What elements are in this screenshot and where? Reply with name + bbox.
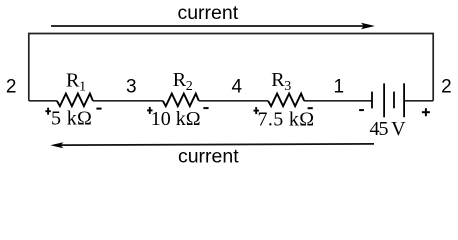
svg-text:10 kΩ: 10 kΩ — [151, 108, 201, 130]
svg-text:current: current — [177, 2, 238, 24]
svg-text:1: 1 — [334, 76, 345, 97]
svg-text:R: R — [173, 69, 187, 91]
svg-text:2: 2 — [186, 79, 193, 94]
svg-text:R: R — [66, 70, 80, 92]
svg-text:5 kΩ: 5 kΩ — [51, 107, 92, 129]
svg-text:4: 4 — [232, 76, 243, 97]
svg-text:R: R — [271, 69, 285, 91]
svg-text:3: 3 — [126, 77, 137, 98]
svg-text:3: 3 — [284, 79, 291, 94]
svg-text:7.5 kΩ: 7.5 kΩ — [258, 109, 315, 131]
svg-text:2: 2 — [441, 76, 452, 97]
svg-text:current: current — [178, 146, 239, 168]
svg-text:1: 1 — [79, 80, 86, 95]
svg-text:2: 2 — [6, 76, 17, 97]
svg-text:45 V: 45 V — [370, 118, 407, 140]
